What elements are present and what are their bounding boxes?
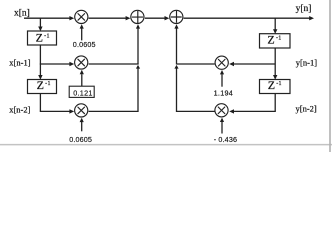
svg-text:0.0605: 0.0605 [73,40,96,49]
svg-text:x[n-1]: x[n-1] [9,58,30,68]
svg-text:x[n-2]: x[n-2] [9,104,30,114]
svg-text:1.194: 1.194 [214,89,234,98]
svg-text:- 0.436: - 0.436 [214,135,237,144]
svg-text:x[n]: x[n] [14,9,30,19]
svg-text:y[n-2]: y[n-2] [296,104,317,114]
svg-text:y[n-1]: y[n-1] [296,57,317,67]
svg-text:0.0605: 0.0605 [69,135,92,144]
svg-text:0.121: 0.121 [73,88,93,97]
svg-text:y[n]: y[n] [296,4,312,14]
